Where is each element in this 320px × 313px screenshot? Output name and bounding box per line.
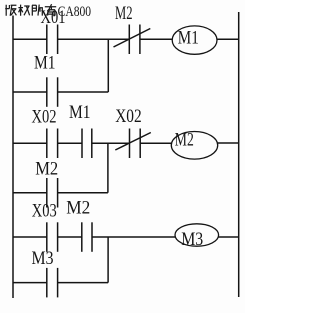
contact X01	[47, 25, 58, 55]
svg-text:M1: M1	[178, 28, 199, 49]
contact M2 normally-closed	[114, 25, 151, 55]
wire branch3 horizontal right	[58, 282, 109, 284]
wire branch3 right riser (node)	[107, 237, 109, 283]
contact M1 (rung2)	[82, 129, 92, 159]
wire rung3 to coil	[92, 236, 175, 238]
wire rung1 left segment	[13, 38, 47, 40]
svg-text:M2: M2	[175, 129, 194, 150]
coil M3	[175, 224, 219, 250]
wire rung2 segment 2	[58, 142, 82, 144]
wire branch1 horizontal left	[13, 91, 47, 93]
wire branch2 right riser (node)	[107, 143, 109, 192]
wire branch2 horizontal right	[58, 192, 108, 194]
coil M1	[172, 26, 217, 54]
wire branch1 right riser (node)	[107, 39, 109, 92]
right power rail	[238, 12, 240, 297]
wire rung1 middle segment	[58, 38, 130, 40]
svg-text:M3: M3	[181, 229, 203, 250]
contact M3 (parallel branch)	[47, 268, 58, 298]
contact M2 (parallel branch)	[47, 178, 58, 208]
svg-text:X01: X01	[41, 7, 66, 28]
wire branch1 horizontal right	[58, 91, 109, 93]
contact M1 (parallel branch)	[47, 77, 58, 107]
wire rung2 segment 3	[92, 142, 130, 144]
wire rung3 right segment	[219, 236, 239, 238]
wire branch2 horizontal left	[13, 192, 47, 194]
wire rung2 to coil	[140, 142, 171, 144]
svg-text:M2: M2	[66, 197, 90, 218]
contact X03	[47, 222, 58, 252]
coil M2	[171, 129, 217, 159]
wire branch3 horizontal left	[13, 282, 47, 284]
svg-text:M1: M1	[34, 53, 56, 74]
svg-text:X02: X02	[115, 106, 142, 127]
contact M2 (rung3)	[82, 222, 92, 252]
svg-text:M2: M2	[115, 3, 133, 24]
wire rung2 right segment	[218, 142, 239, 144]
contact X02	[47, 129, 58, 159]
svg-text:M1: M1	[69, 102, 91, 123]
wire rung3 left segment	[13, 236, 47, 238]
svg-text:M2: M2	[35, 159, 58, 180]
wire rung3 segment 2	[58, 236, 82, 238]
wire rung1 right segment	[217, 38, 239, 40]
left power rail	[12, 16, 14, 299]
wire rung2 left segment	[13, 142, 47, 144]
svg-text:X03: X03	[32, 200, 57, 221]
svg-text:X02: X02	[32, 107, 57, 128]
wire rung1 to coil	[140, 38, 172, 40]
contact X02 normally-closed	[115, 129, 151, 159]
svg-text:M3: M3	[32, 248, 54, 269]
watermark 版权所有 (drawn strokes)	[5, 4, 56, 16]
